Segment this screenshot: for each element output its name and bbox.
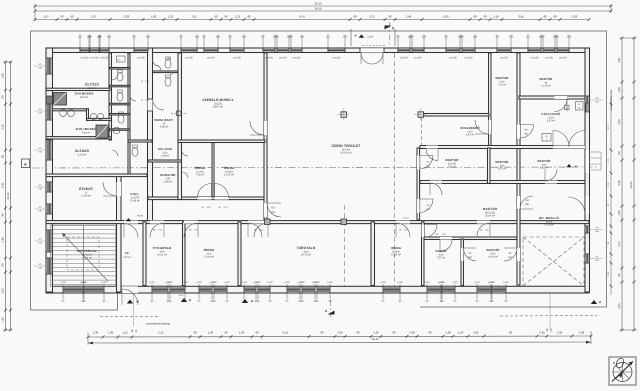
door iroda-se [396, 221, 410, 224]
column C1 [341, 112, 347, 118]
titkarsag west wall [143, 222, 146, 286]
window dim label [382, 284, 384, 300]
window dim label [476, 284, 478, 300]
svg-text:ÖLTÖZŐ: ÖLTÖZŐ [75, 149, 89, 153]
svg-text:90: 90 [2, 263, 5, 266]
svg-text:KAZÁN: KAZÁN [436, 249, 447, 253]
svg-text:1,36: 1,36 [93, 330, 99, 334]
section line B-B [32, 167, 598, 168]
svg-text:10,04 m²: 10,04 m² [157, 253, 167, 256]
svg-text:11,98 m²: 11,98 m² [81, 194, 91, 197]
svg-text:8,15 m²: 8,15 m² [78, 153, 87, 156]
svg-text:RAKTÁR: RAKTÁR [537, 159, 551, 163]
svg-text:p=90: p=90 [224, 281, 230, 284]
svg-text:p=90: p=90 [267, 281, 273, 284]
svg-text:12,42 m²: 12,42 m² [224, 173, 234, 176]
svg-text:150: 150 [595, 100, 600, 103]
svg-text:KÖ: KÖ [271, 207, 275, 210]
window dim label [276, 35, 278, 49]
window dim label [89, 35, 91, 49]
svg-text:203,03 m²: 203,03 m² [340, 151, 351, 154]
svg-text:2,35: 2,35 [337, 330, 343, 334]
top wall windows [80, 48, 89, 53]
svg-text:90: 90 [428, 330, 432, 334]
right wall windows [585, 96, 590, 104]
wc partitions [110, 68, 131, 70]
svg-text:7,15 m²: 7,15 m² [498, 83, 507, 86]
svg-text:IRODA: IRODA [224, 166, 235, 170]
column C4 [265, 219, 271, 225]
left wall dark door [46, 96, 53, 104]
svg-text:34,10: 34,10 [314, 7, 322, 11]
door kazan top wall [440, 237, 452, 240]
svg-text:1,30: 1,30 [445, 330, 451, 334]
outer wall left [46, 48, 53, 292]
svg-text:240: 240 [473, 35, 478, 38]
svg-text:240: 240 [195, 35, 200, 38]
svg-text:M: M [354, 35, 356, 38]
svg-text:90: 90 [509, 330, 513, 334]
svg-text:pm240: pm240 [207, 57, 215, 60]
svg-text:2,46: 2,46 [2, 237, 5, 243]
window dim label [445, 35, 447, 49]
vent symbol ruha rakt [177, 111, 182, 116]
svg-text:3,97 m²: 3,97 m² [466, 133, 475, 136]
main cross wall left section [148, 48, 153, 222]
wc toilets left column [117, 73, 123, 81]
svg-text:p=90: p=90 [211, 281, 217, 284]
svg-text:240: 240 [107, 35, 112, 38]
svg-text:240: 240 [216, 35, 221, 38]
svg-text:TAK.SZER: TAK.SZER [158, 147, 173, 151]
window dim label [133, 35, 135, 49]
window dim label [286, 284, 288, 300]
staircase inner boundary [51, 225, 116, 287]
wc basin [155, 65, 161, 71]
svg-text:90: 90 [618, 273, 621, 276]
svg-text:90: 90 [2, 95, 5, 98]
svg-text:pm240: pm240 [414, 57, 422, 60]
svg-text:SZERELŐ MŰHELY: SZERELŐ MŰHELY [202, 98, 234, 102]
door koz2 west [517, 125, 520, 139]
svg-text:90: 90 [2, 155, 5, 158]
svg-text:RAKTÁR: RAKTÁR [445, 158, 459, 162]
svg-text:1,40: 1,40 [2, 317, 5, 323]
small box near raktar2 door [565, 105, 570, 110]
svg-text:90: 90 [320, 330, 324, 334]
svg-text:p=90: p=90 [101, 281, 107, 284]
svg-text:1,05: 1,05 [607, 271, 610, 276]
svg-text:4,58 m²: 4,58 m² [160, 125, 169, 128]
window dim label [203, 35, 205, 49]
svg-text:2,30: 2,30 [373, 330, 379, 334]
svg-text:p=90: p=90 [255, 281, 261, 284]
bottom wall windows [63, 286, 83, 293]
svg-text:24,20: 24,20 [629, 181, 633, 188]
svg-text:4,12: 4,12 [618, 241, 621, 247]
dilatation joints [394, 53, 396, 290]
svg-text:p=90: p=90 [474, 281, 480, 284]
svg-text:1,57 m²: 1,57 m² [123, 256, 131, 259]
svg-text:p=90: p=90 [327, 281, 333, 284]
svg-text:p=90: p=90 [60, 281, 66, 284]
svg-text:90: 90 [60, 15, 64, 19]
svg-text:3,94: 3,94 [618, 119, 621, 125]
bottom segmented dimension line [88, 336, 591, 337]
iroda-se east wall [422, 222, 425, 286]
svg-text:p=90: p=90 [149, 281, 155, 284]
svg-text:p=90: p=90 [424, 281, 430, 284]
svg-text:90: 90 [224, 330, 228, 334]
svg-text:90: 90 [193, 330, 197, 334]
svg-text:p=90: p=90 [81, 281, 87, 284]
svg-text:240: 240 [242, 35, 247, 38]
svg-text:90: 90 [2, 213, 5, 216]
window dim label [213, 284, 215, 300]
svg-text:1,08: 1,08 [618, 210, 621, 216]
svg-text:IRODA: IRODA [195, 166, 206, 170]
svg-text:22,98 m²: 22,98 m² [130, 199, 140, 202]
svg-text:8,19 m²: 8,19 m² [88, 87, 97, 90]
svg-text:LÉPCSŐHÁZ: LÉPCSŐHÁZ [77, 249, 97, 253]
svg-text:p=90: p=90 [284, 281, 290, 284]
door raktar1 top [426, 146, 438, 149]
svg-text:RAKTÁR: RAKTÁR [539, 77, 553, 81]
door right wall upper (exterior, with steps) [585, 150, 590, 173]
svg-text:2,55: 2,55 [2, 288, 5, 294]
kazan east wall [461, 239, 464, 286]
window dim label [542, 35, 544, 49]
svg-text:3,05: 3,05 [2, 182, 5, 188]
door tak.szer [182, 150, 189, 156]
svg-text:ZUH.+MOSDÓ: ZUH.+MOSDÓ [76, 127, 97, 131]
svg-text:7,57 m²: 7,57 m² [437, 256, 446, 259]
svg-text:1,48: 1,48 [2, 73, 5, 79]
door raktar2-koz [555, 96, 568, 99]
svg-text:300: 300 [271, 211, 276, 214]
door raktar-se [517, 248, 520, 261]
svg-text:1,25: 1,25 [122, 330, 128, 334]
svg-text:2,97: 2,97 [91, 15, 97, 19]
iroda row top wall [178, 140, 265, 143]
left wall windows [46, 58, 53, 74]
svg-text:34,16: 34,16 [372, 337, 379, 341]
svg-text:ÖLTÖZŐ: ÖLTÖZŐ [85, 83, 99, 87]
svg-text:KP.: KP. [125, 252, 129, 255]
door etkezo [117, 182, 122, 196]
svg-text:90: 90 [392, 330, 396, 334]
svg-text:WC: WC [167, 57, 171, 60]
right side vent annotation [576, 102, 584, 111]
wc divider wall [128, 53, 130, 176]
svg-text:12,06 m²: 12,06 m² [204, 255, 214, 258]
svg-text:90: 90 [224, 15, 228, 19]
hall east lower wall [417, 148, 420, 220]
shower stall 2 [96, 125, 108, 138]
svg-text:3,37 m²: 3,37 m² [448, 165, 457, 168]
wash basins [60, 110, 67, 117]
svg-text:2,38: 2,38 [579, 330, 585, 334]
window dim label [180, 35, 182, 49]
door workshop-hall [264, 121, 267, 135]
shower stall 1 [54, 93, 67, 106]
svg-text:p=90: p=90 [380, 281, 386, 284]
svg-text:+4,00: +4,00 [367, 36, 374, 39]
svg-text:WC: WC [117, 59, 121, 62]
svg-text:RUHATÁR: RUHATÁR [160, 173, 176, 177]
window dim label [169, 284, 171, 300]
svg-text:11,04 m²: 11,04 m² [82, 256, 92, 259]
svg-text:1,50: 1,50 [557, 330, 563, 334]
svg-text:pm240: pm240 [333, 57, 341, 60]
svg-text:±0,00: ±0,00 [137, 215, 144, 218]
svg-text:KÖZLEKEDŐ: KÖZLEKEDŐ [460, 126, 480, 130]
svg-text:1,10: 1,10 [493, 15, 499, 19]
door corridor-strip west [422, 225, 425, 238]
svg-text:ÜZEMI TERÜLET: ÜZEMI TERÜLET [331, 144, 361, 148]
section line A top [389, 22, 391, 47]
staircase treads [51, 225, 116, 227]
doors targyalo [248, 221, 268, 224]
top segmented dimension line [35, 19, 589, 21]
svg-text:90: 90 [483, 15, 487, 19]
svg-text:2,10: 2,10 [607, 124, 610, 129]
staircase wing wall [117, 176, 122, 292]
svg-text:p=90: p=90 [299, 281, 305, 284]
outer wall top [46, 48, 589, 53]
svg-text:240: 240 [38, 111, 43, 114]
svg-text:4,05: 4,05 [618, 303, 621, 309]
door iroda-sw [184, 221, 198, 224]
svg-text:1,22: 1,22 [235, 15, 241, 19]
carport dashed outline [523, 237, 584, 286]
window dim label [491, 284, 493, 300]
section line A bottom [330, 300, 332, 317]
svg-text:WC: WC [170, 73, 174, 76]
column C2 [418, 112, 424, 118]
svg-text:240: 240 [38, 187, 43, 190]
svg-text:27,30 m²: 27,30 m² [544, 223, 554, 226]
door lobby from corridor [124, 221, 138, 224]
svg-text:10,34 m²: 10,34 m² [391, 253, 401, 256]
svg-text:pm240: pm240 [449, 57, 457, 60]
svg-text:pm240: pm240 [400, 57, 408, 60]
door hall-corridor KO300 [264, 203, 267, 217]
svg-text:pm240: pm240 [531, 57, 539, 60]
window dim label [290, 35, 292, 49]
svg-text:150: 150 [595, 259, 600, 262]
svg-text:1,90: 1,90 [208, 330, 214, 334]
right dimension lines [621, 38, 623, 330]
svg-text:p=90: p=90 [503, 281, 509, 284]
svg-text:36,10: 36,10 [314, 2, 322, 6]
iroda divider [212, 142, 214, 197]
svg-text:3,96: 3,96 [618, 180, 621, 186]
svg-text:IRODA: IRODA [391, 246, 402, 250]
outer wall right [585, 48, 590, 292]
small wc doors [112, 74, 119, 81]
door koz storage [489, 120, 492, 134]
svg-text:pm240: pm240 [185, 57, 193, 60]
window dim label [527, 35, 529, 49]
svg-text:ZUH.MOSDÓ: ZUH.MOSDÓ [74, 92, 94, 96]
eaves outline [31, 31, 607, 310]
svg-text:RAKTÁR: RAKTÁR [495, 76, 509, 80]
wc partition [153, 71, 179, 73]
svg-text:személyzeti bejárat: személyzeti bejárat [146, 322, 170, 326]
svg-text:31,94 m²: 31,94 m² [485, 214, 495, 217]
window dim label [243, 284, 245, 300]
svg-text:90: 90 [473, 15, 477, 19]
svg-text:1,40: 1,40 [618, 87, 621, 93]
svg-text:240: 240 [300, 35, 305, 38]
svg-text:p=90: p=90 [314, 281, 320, 284]
svg-text:p=90: p=90 [452, 281, 458, 284]
staircase arrow [62, 233, 108, 281]
left dimension lines [5, 62, 7, 330]
window dim label [99, 35, 101, 49]
raktar row top wall [420, 146, 585, 149]
oltozo bottom wall [46, 88, 110, 90]
svg-text:3,98 m²: 3,98 m² [164, 180, 173, 183]
hall west wall [264, 53, 267, 220]
svg-text:2,48: 2,48 [406, 15, 412, 19]
svg-text:GK. BEÁLLÓ: GK. BEÁLLÓ [539, 216, 560, 220]
zuh stepped wall b [87, 118, 112, 120]
svg-text:2,63: 2,63 [572, 15, 578, 19]
svg-text:240: 240 [146, 35, 151, 38]
small annotation box koz2 [542, 134, 551, 142]
svg-text:szomszédos telek: szomszédos telek [610, 89, 613, 110]
workshop west wall [178, 53, 182, 200]
svg-text:90: 90 [388, 15, 392, 19]
svg-text:3,11: 3,11 [191, 15, 197, 19]
svg-text:3,03: 3,03 [124, 15, 130, 19]
svg-text:KÖZL.: KÖZL. [130, 192, 139, 196]
svg-text:pm240: pm240 [465, 57, 473, 60]
svg-text:p=90: p=90 [489, 281, 495, 284]
svg-text:pm240: pm240 [500, 57, 508, 60]
svg-text:p=90: p=90 [182, 281, 188, 284]
svg-text:4,35: 4,35 [443, 15, 449, 19]
svg-text:240: 240 [38, 66, 43, 69]
svg-text:RAKTÁR: RAKTÁR [495, 160, 509, 164]
svg-text:RUHA RAKT.: RUHA RAKT. [154, 118, 173, 122]
svg-text:M: M [599, 301, 601, 304]
svg-text:2,35: 2,35 [539, 330, 545, 334]
svg-text:90: 90 [356, 330, 360, 334]
svg-text:3,45: 3,45 [518, 15, 524, 19]
window dim label [257, 284, 259, 300]
svg-text:pm240: pm240 [545, 57, 553, 60]
svg-text:1,20: 1,20 [168, 15, 174, 19]
doors hall east wall [417, 156, 420, 170]
svg-text:M: M [189, 299, 191, 302]
window dim label [229, 35, 231, 49]
svg-text:RAKTÁR: RAKTÁR [483, 207, 498, 211]
svg-text:19,10: 19,10 [6, 192, 10, 199]
window dim label [316, 284, 318, 300]
svg-text:4,35: 4,35 [473, 330, 479, 334]
svg-text:IRODA: IRODA [204, 248, 215, 252]
window dim label [397, 35, 399, 49]
staircase dashed landing [67, 237, 99, 270]
door ruhatar [182, 172, 189, 178]
svg-text:90: 90 [214, 15, 218, 19]
svg-text:90: 90 [247, 15, 251, 19]
main entrance top [360, 48, 384, 53]
svg-text:93: 93 [255, 330, 259, 334]
svg-text:2,38: 2,38 [409, 330, 415, 334]
kazan top wall [424, 237, 518, 240]
duct on right wall [586, 103, 590, 112]
svg-text:pm240: pm240 [293, 57, 301, 60]
svg-text:4,25: 4,25 [283, 330, 289, 334]
svg-text:1,50: 1,50 [458, 330, 464, 334]
top overall dimension line 36.10 [35, 5, 611, 7]
svg-text:p=90: p=90 [397, 281, 403, 284]
window dim label [262, 35, 264, 49]
svg-text:2,27: 2,27 [370, 15, 376, 19]
svg-text:RAKTÁR: RAKTÁR [486, 248, 500, 252]
column C3 [341, 219, 347, 225]
svg-text:90: 90 [553, 15, 557, 19]
svg-text:240: 240 [567, 35, 572, 38]
compass rose [609, 357, 636, 385]
svg-text:240: 240 [38, 241, 43, 244]
svg-text:KÖZLEKEDŐ: KÖZLEKEDŐ [542, 112, 562, 116]
svg-text:10,04 m²: 10,04 m² [488, 255, 498, 258]
raktar divider [488, 148, 491, 184]
double door koz2 in raktar top wall [553, 146, 585, 149]
svg-text:11,15 m²: 11,15 m² [541, 84, 551, 87]
svg-text:5,62 m²: 5,62 m² [80, 96, 89, 99]
zuh stepped wall a [46, 109, 88, 111]
storage east wall / carport wall [517, 53, 520, 285]
svg-text:pm240: pm240 [101, 57, 109, 60]
svg-text:3,10: 3,10 [2, 124, 5, 130]
svg-text:150: 150 [595, 230, 600, 233]
svg-text:M: M [251, 300, 253, 303]
svg-text:pm70: pm70 [403, 217, 409, 220]
right opening dimension line x=611 [610, 95, 612, 295]
oltozo2 top wall [46, 137, 110, 139]
svg-text:1,10: 1,10 [607, 158, 610, 163]
svg-text:pm240: pm240 [559, 57, 567, 60]
svg-text:3,97 m²: 3,97 m² [547, 119, 556, 122]
svg-text:8,93 m²: 8,93 m² [540, 166, 549, 169]
svg-text:pm240: pm240 [265, 57, 273, 60]
svg-text:240: 240 [38, 150, 43, 153]
svg-text:90: 90 [618, 151, 621, 154]
svg-text:90: 90 [70, 15, 74, 19]
outer wall bottom [46, 286, 589, 293]
top overall dimension line 34.10 [35, 10, 611, 12]
svg-text:5,84 m²: 5,84 m² [82, 131, 91, 134]
door entrance lobby bottom [122, 286, 138, 293]
svg-text:TITKÁRSÁG: TITKÁRSÁG [153, 246, 172, 250]
svg-text:1,97: 1,97 [43, 15, 49, 19]
svg-text:90: 90 [543, 15, 547, 19]
door gk beallo [517, 196, 520, 209]
svg-text:90: 90 [353, 15, 357, 19]
svg-text:1,90: 1,90 [151, 15, 157, 19]
door ruha rakt [148, 99, 153, 111]
window dim label [411, 35, 413, 49]
door kazan [461, 248, 464, 261]
titkarsag east wall [183, 222, 186, 286]
svg-text:KÖ: KÖ [524, 129, 528, 132]
